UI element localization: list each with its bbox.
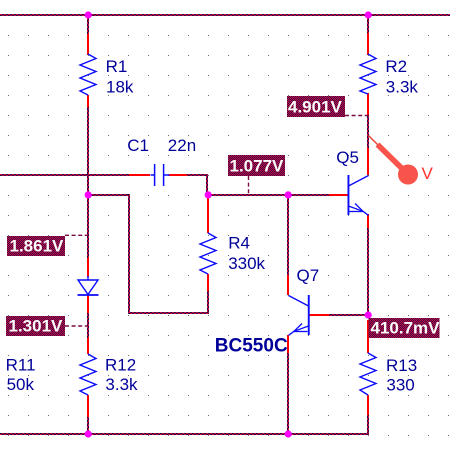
callout dash 4.901V xyxy=(345,115,368,117)
junction node A xyxy=(85,191,92,198)
lead diode anode xyxy=(87,258,89,277)
lead R13 bottom xyxy=(367,395,369,415)
junction node top-left xyxy=(85,11,92,18)
wire R1 bottom to node A xyxy=(87,107,89,258)
voltage probe V xyxy=(369,136,419,185)
lead C1 left xyxy=(129,174,150,176)
svg-text:410.7mV: 410.7mV xyxy=(371,319,441,338)
svg-text:R11: R11 xyxy=(6,356,36,375)
svg-text:1.077V: 1.077V xyxy=(230,157,285,176)
wire C1 input rail xyxy=(0,174,129,176)
wire ground bottom rail xyxy=(0,433,369,435)
voltage label 410.7mV xyxy=(369,318,441,338)
wire loop bottom horizontal xyxy=(128,312,209,314)
capacitor C1 xyxy=(151,164,170,186)
lead R12 bottom xyxy=(87,395,89,417)
junction node C xyxy=(285,191,292,198)
voltage label 1.861V xyxy=(7,236,65,256)
svg-text:3.3k: 3.3k xyxy=(105,375,138,394)
junction node B xyxy=(205,191,212,198)
callout dash 1.861V xyxy=(65,234,88,236)
callout dash 1.077V xyxy=(248,176,250,194)
junction node top-right xyxy=(365,11,372,18)
resistor R2 xyxy=(360,54,376,94)
svg-text:50k: 50k xyxy=(7,375,35,394)
lead R4 bottom xyxy=(207,274,209,291)
wire left branch below top junction xyxy=(87,16,89,34)
wire R12 bottom to ground rail xyxy=(87,417,89,434)
svg-text:18k: 18k xyxy=(106,77,134,96)
wire node A to loop xyxy=(88,194,130,196)
lead diode cathode xyxy=(87,295,89,313)
lead R4 top xyxy=(207,196,209,233)
wire diode cathode to R12 xyxy=(87,313,89,338)
svg-text:22n: 22n xyxy=(168,136,196,155)
wire R2 bottom to Q5 collector xyxy=(367,115,369,148)
svg-text:R2: R2 xyxy=(385,57,407,76)
callout dash 1.301V xyxy=(65,325,88,327)
wire Q5 emitter down to node D xyxy=(367,228,369,315)
lead Q5 base xyxy=(329,194,348,196)
svg-text:BC550C: BC550C xyxy=(215,336,288,357)
transistor Q5 xyxy=(348,175,369,215)
diode D1 xyxy=(78,276,99,295)
svg-text:R1: R1 xyxy=(106,57,128,76)
wire R13 bottom to ground rail xyxy=(367,415,369,434)
resistor R1 xyxy=(80,54,96,95)
lead R1 bottom xyxy=(87,95,89,107)
wire corner down to node B xyxy=(206,174,208,194)
wire top rail xyxy=(0,14,450,16)
svg-text:330: 330 xyxy=(386,376,414,395)
lead Q7 base xyxy=(308,314,329,316)
lead Q5 emitter xyxy=(367,214,369,228)
lead Q7 emitter xyxy=(287,335,289,353)
wire Q7 base to node D xyxy=(329,314,368,316)
voltage label 1.077V xyxy=(228,155,285,176)
wire node C down to Q7 collector xyxy=(287,196,289,275)
svg-text:V: V xyxy=(422,164,434,183)
svg-text:330k: 330k xyxy=(228,254,265,273)
junction ground left xyxy=(85,430,92,437)
lead C1 right xyxy=(169,174,187,176)
resistor R12 xyxy=(80,354,96,395)
voltage label 4.901V xyxy=(287,96,345,117)
resistor R4 xyxy=(200,233,216,274)
svg-text:C1: C1 xyxy=(127,136,149,155)
svg-text:R13: R13 xyxy=(386,356,417,375)
lead R2 bottom xyxy=(367,93,369,115)
junction ground mid xyxy=(285,430,292,437)
lead R1 top xyxy=(87,34,89,55)
wire Q7 emitter down to ground rail xyxy=(287,353,289,434)
svg-text:1.861V: 1.861V xyxy=(10,237,65,256)
lead R2 top xyxy=(367,33,369,55)
voltage label 1.301V xyxy=(6,316,65,336)
svg-text:1.301V: 1.301V xyxy=(9,317,64,336)
svg-text:R4: R4 xyxy=(228,233,250,252)
wire top rail to R2 xyxy=(367,16,369,33)
lead Q7 collector xyxy=(287,275,289,295)
svg-text:4.901V: 4.901V xyxy=(288,98,343,117)
wire loop right vertical to R4 xyxy=(207,291,209,312)
resistor R13 xyxy=(360,353,376,395)
transistor Q7 xyxy=(289,295,310,335)
svg-text:3.3k: 3.3k xyxy=(386,77,419,96)
junction node D xyxy=(365,311,372,318)
svg-text:R12: R12 xyxy=(105,356,136,375)
wire loop left vertical xyxy=(128,194,130,313)
wire C1 right to corner xyxy=(187,174,207,176)
lead Q5 collector xyxy=(367,148,369,175)
lead R13 top xyxy=(367,320,369,353)
svg-text:Q5: Q5 xyxy=(336,148,359,167)
svg-text:Q7: Q7 xyxy=(297,266,320,285)
wire node B to Q5 base xyxy=(207,194,329,196)
lead R12 top xyxy=(87,338,89,354)
